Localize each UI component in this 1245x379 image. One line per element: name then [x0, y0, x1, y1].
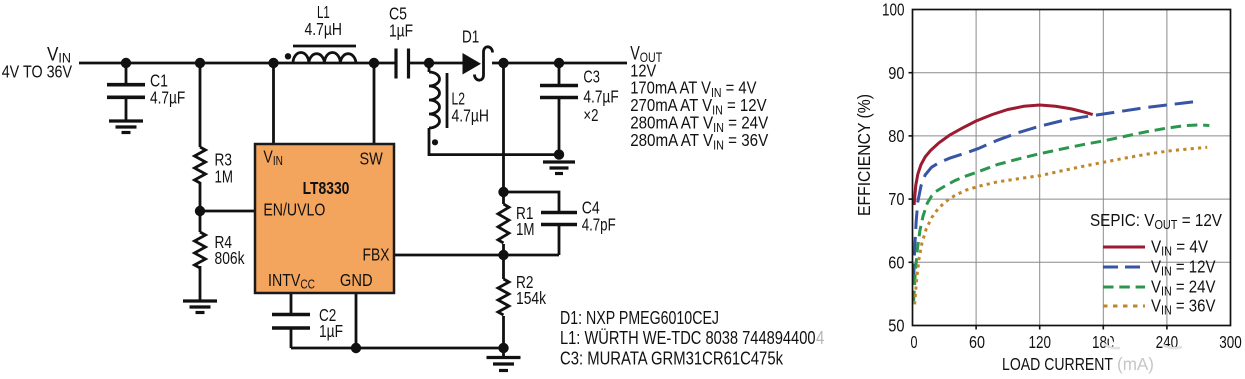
junction top rail SW pin / C5	[369, 58, 379, 68]
CHART	[854, 0, 1242, 374]
wire R2 to ground	[502, 316, 505, 356]
svg-text:D1: NXP PMEG6010CEJ: D1: NXP PMEG6010CEJ	[560, 307, 719, 328]
svg-text:EFFICIENCY (%): EFFICIENCY (%)	[854, 94, 874, 216]
svg-text:LOAD CURRENT: LOAD CURRENT	[1002, 354, 1113, 374]
ground under C3	[543, 162, 575, 174]
svg-text:C3: MURATA GRM31CR61C475k: C3: MURATA GRM31CR61C475k	[560, 348, 784, 369]
legend sample VIN=36V	[1103, 305, 1145, 308]
svg-text:1µF: 1µF	[319, 321, 343, 341]
wire C4 bottom branch	[558, 226, 561, 255]
wire L2 bottom	[429, 128, 559, 155]
wire C4 top branch	[504, 192, 560, 211]
svg-text:120: 120	[1028, 332, 1051, 352]
svg-text:1µF: 1µF	[389, 21, 413, 41]
wire C3 to ground node	[558, 99, 561, 159]
svg-text:50: 50	[888, 316, 904, 336]
wire C2 to bottom rail	[290, 329, 293, 348]
svg-text:4.7µH: 4.7µH	[452, 105, 490, 125]
resistor R4	[195, 232, 206, 268]
svg-text:60: 60	[969, 332, 985, 352]
node VOUT labels	[630, 44, 768, 153]
svg-text:D1: D1	[462, 27, 479, 47]
wire C1 stem	[125, 63, 128, 83]
wire R1 to FBX node	[502, 244, 505, 279]
svg-text:L1: WÜRTH WE-TDC 8038 74489440: L1: WÜRTH WE-TDC 8038 744894400	[560, 327, 816, 348]
svg-text:SW: SW	[360, 149, 384, 169]
chart x-axis labels	[911, 332, 1242, 352]
curve VIN=12V	[914, 101, 1199, 282]
capacitor C2	[272, 315, 310, 329]
svg-text:VIN = 12V: VIN = 12V	[1151, 257, 1216, 279]
junction node VOUT divider	[498, 58, 508, 68]
wire bottom ground rail	[291, 347, 504, 350]
svg-text:FBX: FBX	[363, 245, 390, 265]
resistor R3	[195, 147, 206, 183]
svg-text:70: 70	[888, 189, 904, 209]
resistor R2	[498, 279, 509, 315]
svg-text:4.7µF: 4.7µF	[583, 87, 618, 107]
chart gridlines	[913, 10, 1231, 326]
node VIN label	[2, 45, 73, 82]
junction top rail L2	[424, 58, 434, 68]
capacitor C4	[541, 213, 577, 225]
svg-text:C3: C3	[583, 67, 600, 87]
svg-text:0: 0	[911, 332, 918, 352]
capacitor C5	[396, 49, 409, 79]
curve VIN=4V	[914, 105, 1093, 205]
wire EN/UVLO	[200, 210, 255, 213]
svg-text:EN/UVLO: EN/UVLO	[263, 200, 325, 220]
svg-text:VIN = 36V: VIN = 36V	[1151, 296, 1216, 318]
wire C1 to ground	[125, 99, 128, 120]
svg-text:806k: 806k	[215, 248, 245, 268]
svg-text:LT8330: LT8330	[303, 178, 350, 198]
svg-text:4.7µH: 4.7µH	[305, 19, 343, 39]
svg-text:300: 300	[1219, 332, 1242, 352]
wire VIN pin	[272, 63, 275, 144]
junction top rail C3	[554, 58, 564, 68]
curve VIN=36V	[915, 147, 1208, 304]
junction node bottom ground rail R2	[498, 343, 508, 353]
wire R4 to ground	[199, 266, 202, 300]
junction node R1 top	[498, 187, 508, 197]
wire rail D1 cathode to VOUT	[492, 62, 627, 65]
wire top rail input	[79, 62, 395, 65]
junction top rail R3	[195, 58, 205, 68]
junction node C3/L2 ground	[554, 149, 564, 159]
svg-text:4.7pF: 4.7pF	[582, 215, 616, 235]
svg-text:80: 80	[888, 126, 904, 146]
wire VOUT to R1	[502, 63, 505, 204]
svg-text:×2: ×2	[583, 105, 598, 125]
svg-text:(mA): (mA)	[1117, 354, 1154, 374]
svg-text:154k: 154k	[516, 288, 546, 308]
wire GND pin	[355, 293, 358, 348]
junction top rail C1	[121, 58, 131, 68]
junction node EN/UVLO	[195, 206, 205, 216]
svg-text:100: 100	[882, 0, 905, 20]
ground under R2	[487, 358, 521, 371]
svg-text:GND: GND	[340, 270, 373, 290]
wire L2 stem down	[428, 63, 431, 72]
svg-text:4V TO 36V: 4V TO 36V	[2, 61, 73, 81]
svg-text:4: 4	[816, 327, 824, 348]
wire C3 stem	[558, 63, 561, 84]
inductor L1	[293, 46, 356, 63]
junction top rail VIN pin / L1	[268, 58, 278, 68]
watermark artifact over 180	[1107, 334, 1114, 345]
wire R3 stem	[199, 63, 202, 147]
wire R3 to node EN	[199, 182, 202, 232]
IC U1 LT8330	[255, 144, 394, 293]
curve VIN=24V	[914, 125, 1210, 301]
chart y-axis labels	[882, 0, 905, 336]
legend sample VIN=4V	[1103, 246, 1145, 249]
legend sample VIN=12V	[1103, 266, 1145, 269]
wire SW pin	[373, 63, 376, 144]
chart axis ticks	[909, 73, 1167, 330]
resistor R1	[498, 204, 509, 243]
junction GND pin bottom	[351, 343, 361, 353]
svg-text:4.7µF: 4.7µF	[150, 87, 185, 107]
svg-text:VIN = 4V: VIN = 4V	[1151, 237, 1208, 259]
diode D1	[463, 53, 482, 75]
wire FBX	[394, 254, 559, 257]
junction node FBX	[498, 250, 508, 260]
ground under R4	[183, 301, 217, 313]
svg-text:60: 60	[888, 252, 904, 272]
legend sample VIN=24V	[1103, 286, 1145, 289]
svg-text:1M: 1M	[516, 219, 535, 239]
svg-text:280mA AT VIN = 36V: 280mA AT VIN = 36V	[630, 130, 768, 153]
capacitor C3	[540, 86, 578, 98]
ground under C1	[109, 121, 143, 133]
inductor L2	[429, 72, 447, 128]
capacitor C1	[107, 85, 145, 98]
wire rail C5 to D1	[410, 62, 464, 65]
chart plot border	[913, 10, 1231, 326]
wire INTVCC pin to C2	[290, 293, 293, 314]
svg-text:1M: 1M	[215, 167, 234, 187]
svg-text:90: 90	[888, 63, 904, 83]
